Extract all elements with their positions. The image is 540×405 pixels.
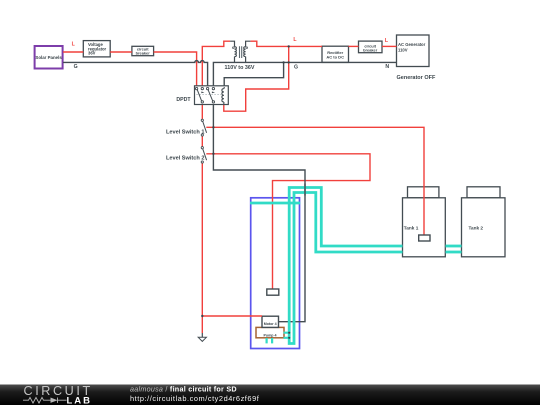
svg-text:LAB: LAB — [67, 395, 93, 405]
water pipe stubs: pump bottom ports — [267, 338, 273, 343]
wire: DPDT pole 1 out to level switch 1 — [201, 103, 203, 119]
wire: L node down and around to DPDT relay coil bottom — [224, 46, 289, 111]
wire L: solar panel to voltage regulator — [63, 51, 83, 53]
wire: ground node to motor 4 — [202, 315, 262, 317]
svg-text:G: G — [74, 64, 78, 70]
wire: DPDT pin 2 up to transformer primary — [202, 41, 230, 88]
junction dot: G wire to coil branch — [282, 61, 284, 63]
level switch 2 — [201, 147, 206, 164]
footer bar — [0, 385, 540, 405]
svg-text:110V: 110V — [398, 48, 408, 53]
junction dot: pump port upper — [288, 332, 290, 334]
circuit breaker CB2 box — [359, 41, 383, 53]
DPDT internals: dashed link — [196, 93, 221, 95]
wire: level switch 1 to level switch 2 — [201, 136, 203, 147]
AC generator 110V box — [397, 35, 430, 67]
water pipe: tank 1 to tank 2 lower — [446, 251, 462, 254]
svg-text:Solar Panels: Solar Panels — [35, 55, 62, 60]
junction dot: ground branch to motor — [201, 315, 203, 317]
circuit breaker CB1 box — [132, 46, 154, 55]
water pipe: tank 1 to tank 2 upper — [446, 245, 462, 248]
svg-text:AC to DC: AC to DC — [326, 54, 344, 59]
junction dot: crossing at G wire — [288, 61, 290, 63]
water pipe stubs: pump right ports — [284, 333, 290, 338]
svg-text:110V to 36V: 110V to 36V — [225, 65, 255, 71]
solar panel module "Solar Panels" — [35, 46, 63, 69]
wire L: voltage regulator to circuit breaker CB1 — [110, 51, 132, 53]
wire: G branch down to DPDT relay coil top — [224, 62, 283, 87]
svg-text:breaker: breaker — [136, 51, 151, 56]
wire G: solar panel to DPDT pin 3 (with hops) — [63, 61, 208, 88]
DPDT relay box — [195, 86, 229, 105]
pump P4 box — [256, 327, 284, 337]
svg-text:breaker: breaker — [363, 47, 378, 52]
wire: level switch 2 out, around to pump sensor — [206, 154, 370, 289]
CircuitLab logo circuit line with resistor and diode — [23, 397, 67, 403]
svg-text:Tank 2: Tank 2 — [469, 226, 484, 231]
svg-text:Generator OFF: Generator OFF — [397, 75, 436, 81]
rectifier AC to DC box — [322, 46, 349, 62]
water pipe: horizontal at pump inlet — [250, 202, 300, 205]
svg-text:N: N — [385, 64, 389, 70]
DPDT arm arrows — [201, 92, 204, 94]
wire: level switch 1 out to tank 1 sensor — [206, 127, 424, 235]
wire: DPDT pole 2 down and around to motor 4 — [213, 103, 305, 322]
junction dot: level switch 1 wire — [212, 126, 214, 128]
wire L: circuit breaker CB1 to DPDT pin 1 — [154, 52, 197, 88]
junction dot: level switch 2 wire — [212, 153, 214, 155]
selection box (blue) around motor/pump — [251, 198, 300, 349]
junction dot: pump port lower — [288, 337, 290, 339]
voltage regulator 36V box — [83, 41, 110, 57]
DPDT relay coil — [222, 87, 224, 104]
motor M4 box — [262, 316, 279, 327]
wire: motor feed vertical over pipes — [304, 184, 306, 196]
svg-text:http://circuitlab.com/cty2d4r6: http://circuitlab.com/cty2d4r6zf69f — [130, 394, 260, 403]
svg-text:Motor 4: Motor 4 — [264, 322, 277, 326]
svg-text:DPDT: DPDT — [176, 97, 191, 103]
ground symbol — [198, 333, 206, 341]
wire L: transformer secondary to rectifier — [250, 41, 322, 46]
DPDT pole arms — [197, 90, 201, 101]
level switch 1 — [201, 119, 206, 136]
svg-text:Level Switch 2: Level Switch 2 — [166, 156, 205, 162]
pump tank level sensor — [267, 289, 279, 295]
svg-text:Level Switch 1: Level Switch 1 — [166, 130, 205, 136]
water pipes: pump loop to tank 1 — [289, 188, 402, 344]
tank 1 — [403, 187, 446, 257]
svg-text:G: G — [294, 64, 298, 70]
tank 1 level sensor — [419, 235, 430, 241]
svg-text:Pump 4: Pump 4 — [264, 334, 277, 338]
wire L: rectifier to circuit breaker CB2 — [349, 45, 359, 47]
junction dot: L wire to coil branch — [288, 45, 290, 47]
svg-text:Tank 1: Tank 1 — [404, 226, 419, 231]
tank 2 — [462, 187, 506, 257]
svg-text:AC Generator: AC Generator — [398, 42, 426, 47]
DPDT pin circles — [195, 87, 214, 103]
svg-text:aalmousa / final circuit for S: aalmousa / final circuit for SD — [130, 385, 237, 394]
wire: level switch 2 down to ground node — [201, 163, 203, 333]
wire G: DPDT pin 4 up, then right to AC generator (N) — [213, 62, 396, 87]
transformer T1 110V to 36V — [230, 41, 250, 62]
svg-text:36V: 36V — [88, 51, 96, 56]
wire L: circuit breaker CB2 to AC generator — [382, 45, 397, 47]
